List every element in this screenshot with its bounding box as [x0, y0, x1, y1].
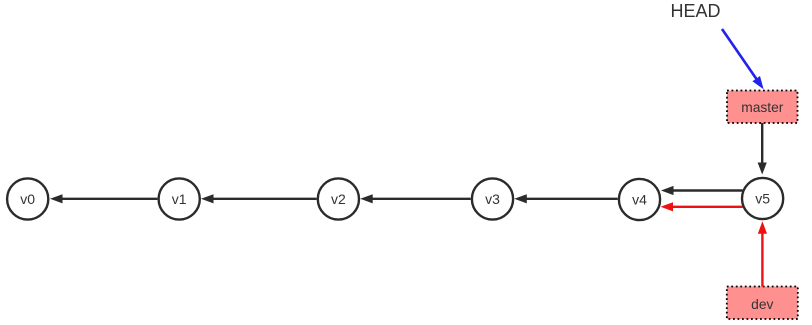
node dev (branch box)	[727, 287, 798, 320]
svg-text:v1: v1	[172, 191, 187, 207]
wire v3 to v2 (black arrow)	[360, 194, 471, 203]
node v2 (commit circle)	[318, 178, 359, 219]
svg-text:dev: dev	[751, 297, 773, 312]
wire v5 to v4 (red arrow)	[661, 202, 743, 211]
node v0 (commit circle)	[7, 178, 48, 219]
wire dev to v5 (red arrow up)	[758, 221, 767, 286]
svg-text:HEAD: HEAD	[671, 1, 721, 21]
node v1 (commit circle)	[159, 178, 200, 219]
wire master to v5 (black arrow down)	[758, 123, 767, 175]
node v3 (commit circle)	[472, 178, 513, 219]
wire v2 to v1 (black arrow)	[201, 194, 317, 203]
svg-text:v4: v4	[632, 192, 647, 208]
node master (branch box)	[727, 91, 798, 124]
node v5 (commit circle)	[742, 178, 783, 219]
wire HEAD to master (blue arrow)	[722, 29, 764, 89]
node v4 (commit circle)	[619, 179, 660, 220]
wire v1 to v0 (black arrow)	[50, 194, 157, 203]
svg-text:v5: v5	[755, 191, 770, 207]
wire v5 to v4 (black arrow)	[661, 186, 743, 195]
svg-text:master: master	[741, 100, 784, 115]
svg-text:v3: v3	[485, 191, 500, 207]
svg-text:v0: v0	[20, 191, 35, 207]
wire v4 to v3 (black arrow)	[514, 194, 617, 203]
svg-text:v2: v2	[331, 191, 346, 207]
